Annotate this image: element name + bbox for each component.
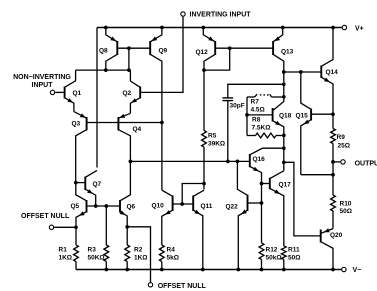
- junction Q14 emitter / R9 / Q15 base: [331, 112, 335, 116]
- wire R7/R8 left link: [246, 97, 248, 136]
- svg-text:OFFSET NULL: OFFSET NULL: [158, 283, 207, 290]
- junction Q18 emitter / R8: [282, 134, 286, 138]
- resistor R8 7.5K: [247, 117, 284, 138]
- transistor Q7: [76, 170, 102, 206]
- non-inverting input label: [13, 74, 71, 89]
- svg-text:V−: V−: [353, 267, 362, 274]
- junction Q16 collector: [282, 146, 286, 150]
- svg-text:R10: R10: [340, 200, 352, 207]
- junction compensation cap node: [282, 82, 286, 86]
- transistor Q9: [150, 28, 167, 123]
- junction Q8 emitter at rail: [104, 26, 108, 30]
- junction Q10/Q11 base tie: [180, 202, 184, 206]
- junction cap bottom: [226, 160, 230, 164]
- wire Q4/Q6 collectors to Q16 base: [130, 160, 249, 162]
- junction Q12/Q13 base tie: [228, 46, 232, 50]
- transistor Q16: [250, 148, 284, 243]
- wire output node down: [332, 162, 334, 175]
- resistor R1 1K: [59, 227, 79, 269]
- transistor Q5: [71, 183, 87, 228]
- wire inverting input to Q2 base: [140, 17, 183, 93]
- svg-text:25Ω: 25Ω: [338, 142, 350, 149]
- svg-text:Q7: Q7: [93, 181, 102, 188]
- svg-text:Q10: Q10: [152, 202, 165, 209]
- resistor R7 4.5-ohm: [247, 94, 272, 113]
- svg-text:30pF: 30pF: [230, 103, 245, 110]
- svg-text:Q18: Q18: [279, 112, 292, 119]
- junction Q7 emitter at Q5/Q6 base line: [94, 204, 98, 208]
- junction Q14 collector at rail: [331, 26, 335, 30]
- wire node B down: [283, 135, 285, 170]
- junction output node: [331, 160, 335, 164]
- svg-text:7.5KΩ: 7.5KΩ: [252, 125, 271, 132]
- resistor R9 25: [331, 114, 350, 162]
- junction Q5 emitter / R1: [74, 225, 78, 229]
- transistor Q6: [120, 161, 136, 226]
- junction Q22 emitter at rail: [236, 268, 240, 272]
- transistor Q12: [196, 28, 274, 131]
- V+ terminal: [342, 25, 364, 32]
- svg-text:1KΩ: 1KΩ: [59, 254, 73, 261]
- svg-text:R3: R3: [88, 246, 97, 253]
- output label: [355, 161, 377, 168]
- wire input to Q1 base: [55, 91, 64, 93]
- svg-text:Q2: Q2: [123, 90, 132, 97]
- transistor Q11: [193, 190, 213, 269]
- junction R12 at rail: [260, 268, 264, 272]
- svg-text:R1: R1: [59, 246, 68, 253]
- wire node B to Q20 base: [284, 162, 321, 236]
- svg-text:OUTPUT: OUTPUT: [355, 161, 377, 168]
- svg-text:INPUT: INPUT: [32, 82, 54, 89]
- transistor Q4: [118, 113, 141, 161]
- svg-text:Q12: Q12: [196, 49, 209, 56]
- wire V- rail: [76, 269, 341, 271]
- svg-text:R2: R2: [134, 246, 143, 253]
- junction Q6 emitter / R2: [125, 225, 129, 229]
- junction Q20 base branch: [282, 160, 286, 164]
- svg-text:V+: V+: [355, 25, 364, 32]
- wire offset null 2: [127, 227, 150, 282]
- junction Q15 emitter tap: [331, 173, 335, 177]
- junction Q22 collector: [236, 160, 240, 164]
- transistor Q20: [321, 228, 343, 269]
- svg-text:50Ω: 50Ω: [288, 254, 300, 261]
- junction node A (R7/Q18 collector): [282, 95, 286, 99]
- svg-text:Q16: Q16: [253, 156, 266, 163]
- svg-text:Q11: Q11: [201, 203, 213, 210]
- svg-text:Q13: Q13: [281, 48, 294, 55]
- offset null 1 terminal: [49, 225, 53, 229]
- junction Q11 emitter at rail: [201, 268, 205, 272]
- junction Q15 collector to Q14 base: [299, 70, 303, 74]
- svg-text:Q4: Q4: [133, 126, 142, 133]
- svg-text:5kΩ: 5kΩ: [167, 254, 179, 261]
- resistor R3 50K: [88, 206, 109, 270]
- wire to output terminal: [333, 161, 340, 163]
- wire Q1-Q2 collector tie: [76, 69, 131, 71]
- svg-text:Q3: Q3: [72, 121, 81, 128]
- wire cap bottom to Q16 base node: [227, 101, 229, 162]
- svg-text:Q17: Q17: [279, 181, 292, 188]
- svg-text:1KΩ: 1KΩ: [134, 254, 148, 261]
- svg-text:R11: R11: [288, 246, 300, 253]
- transistor Q15: [296, 72, 334, 175]
- transistor Q17: [262, 171, 292, 246]
- svg-text:R7: R7: [251, 99, 260, 106]
- svg-text:R4: R4: [167, 246, 176, 253]
- svg-text:R12: R12: [266, 246, 278, 253]
- svg-text:4.5Ω: 4.5Ω: [251, 107, 265, 114]
- wire node A to R7: [272, 96, 284, 98]
- svg-text:Q5: Q5: [71, 203, 80, 210]
- junction Q8/Q9 base tie: [127, 46, 131, 50]
- svg-text:Q14: Q14: [326, 69, 339, 76]
- transistor Q13: [273, 28, 294, 97]
- wire Q8 diode tie: [128, 48, 130, 70]
- transistor Q14: [284, 28, 338, 115]
- offset null 2 terminal: [148, 283, 152, 287]
- wire cap top to node A: [228, 84, 284, 98]
- svg-text:Q20: Q20: [330, 232, 343, 239]
- output terminal: [341, 160, 345, 164]
- transistor Q3: [72, 112, 87, 183]
- svg-text:Q1: Q1: [73, 90, 82, 97]
- junction Q20 collector at rail: [331, 268, 335, 272]
- transistor Q2: [123, 70, 141, 113]
- svg-text:R5: R5: [208, 133, 217, 140]
- transistor Q22: [226, 161, 262, 269]
- V- terminal: [342, 267, 362, 274]
- svg-text:39KΩ: 39KΩ: [208, 141, 225, 148]
- inverting input label: [190, 11, 252, 18]
- transistor Q10: [152, 190, 194, 245]
- junction Q11 diode tie: [202, 182, 206, 186]
- wire Q18 base: [247, 114, 273, 116]
- transistor Q8: [99, 28, 150, 71]
- svg-text:50kΩ: 50kΩ: [266, 254, 282, 261]
- junction R3 at rail: [104, 268, 108, 272]
- transistor Q1: [65, 70, 82, 112]
- junction R11 at rail: [282, 268, 286, 272]
- resistor R5 39K: [202, 131, 226, 148]
- svg-text:NON−INVERTING: NON−INVERTING: [13, 74, 71, 81]
- junction Q8 base-collector tie: [127, 68, 131, 72]
- svg-text:OFFSET NULL: OFFSET NULL: [21, 213, 70, 220]
- offset null 2 label: [158, 283, 207, 290]
- junction Q3 collector / Q7 base / Q5 collector: [74, 181, 78, 185]
- resistor R12 50k: [259, 243, 281, 270]
- inverting input terminal: [181, 12, 185, 16]
- resistor R4 5k: [159, 245, 179, 270]
- resistor R11 50: [281, 246, 300, 270]
- capacitor C1 30pF: [222, 98, 244, 110]
- junction Q18 base: [245, 113, 249, 117]
- resistor R10 50: [331, 175, 352, 229]
- non-inverting input terminal: [50, 90, 54, 94]
- junction Q17 base / Q16 emitter: [260, 182, 264, 186]
- junction R4 at rail: [160, 268, 164, 272]
- wire Q7 collector to V+: [96, 28, 98, 168]
- junction Q13 emitter at rail: [281, 26, 285, 30]
- junction Q9 collector / Q3-Q4 bases: [160, 121, 164, 125]
- junction Q8 collector: [104, 68, 108, 72]
- wire Q12 diode tie: [204, 48, 230, 70]
- svg-text:R8: R8: [252, 117, 261, 124]
- svg-text:R9: R9: [337, 134, 346, 141]
- svg-text:Q9: Q9: [159, 48, 168, 55]
- junction Q4-Q6 collector node: [129, 160, 133, 164]
- offset null 1 label: [21, 213, 70, 220]
- svg-text:Q22: Q22: [226, 203, 239, 210]
- svg-text:Q15: Q15: [296, 112, 309, 119]
- junction Q12 emitter at rail: [201, 26, 205, 30]
- junction R2 at rail: [125, 268, 129, 272]
- resistor R2 1K: [125, 227, 148, 270]
- wire R5 bottom to Q11 collector: [203, 147, 205, 190]
- junction Q22 base tap: [260, 201, 264, 205]
- junction R3 tap: [104, 204, 108, 208]
- junction Q12 collector tie: [202, 68, 206, 72]
- wire Q5-Q6 base tie: [87, 205, 121, 207]
- svg-text:Q6: Q6: [127, 203, 136, 210]
- wire offset null 1: [54, 226, 76, 228]
- wire Q3-Q4 base tie: [87, 122, 162, 124]
- wire Q9 collector down to Q10 collector: [161, 123, 163, 191]
- svg-text:50KΩ: 50KΩ: [88, 254, 105, 261]
- junction Q9 emitter at rail: [160, 26, 164, 30]
- wire Q10-Q11 base to Q11 collector: [182, 184, 204, 205]
- wire Q15 emitter to output node: [301, 174, 333, 176]
- wire V+ rail: [97, 27, 342, 29]
- svg-text:INVERTING INPUT: INVERTING INPUT: [190, 11, 252, 18]
- svg-text:50Ω: 50Ω: [340, 208, 352, 215]
- svg-text:Q8: Q8: [99, 48, 108, 55]
- junction Q13 collector / Q14 base node: [282, 70, 286, 74]
- transistor Q18: [273, 97, 292, 136]
